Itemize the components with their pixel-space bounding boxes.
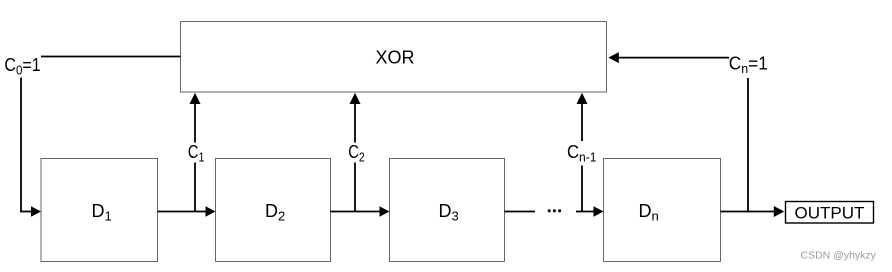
ellipsis dots xyxy=(548,209,561,212)
wire C0 vertical down xyxy=(20,78,22,212)
arrowhead Cn-1 into XOR bottom xyxy=(577,93,588,104)
svg-text:C1: C1 xyxy=(188,142,205,165)
wire C0 feedback horizontal into XOR left xyxy=(41,56,181,58)
flip-flop D1 xyxy=(41,159,158,262)
flip-flop Dn xyxy=(604,159,721,262)
wire D1 to D2 xyxy=(158,211,208,213)
xor gate box U1 xyxy=(181,22,607,93)
svg-text:Cn=1: Cn=1 xyxy=(729,54,768,77)
wire tap node to C1 (lower segment) xyxy=(194,163,196,212)
svg-text:XOR: XOR xyxy=(375,48,414,68)
arrowhead C1 into XOR bottom xyxy=(190,93,201,104)
wire C1 to XOR (upper segment) xyxy=(194,103,196,143)
wire tap node to C2 (lower segment) xyxy=(354,163,356,212)
wire C2 to XOR (upper segment) xyxy=(354,103,356,143)
wire D2 to D3 xyxy=(331,211,382,213)
wire ellipsis to Dn xyxy=(576,211,595,213)
wire Cn vertical down to output net xyxy=(747,78,749,212)
wire Cn horizontal toward XOR right xyxy=(618,57,729,59)
arrowhead Cn into XOR right xyxy=(608,52,619,63)
svg-text:C2: C2 xyxy=(348,142,365,165)
wire tap node to Cn-1 (lower segment) xyxy=(581,166,583,212)
arrowhead into D1 xyxy=(31,206,41,216)
svg-text:C0=1: C0=1 xyxy=(4,55,40,78)
arrowhead into D2 xyxy=(206,206,216,216)
arrowhead into Dn xyxy=(594,206,604,216)
arrowhead into OUTPUT xyxy=(774,206,784,217)
wire Dn to OUTPUT xyxy=(721,211,776,213)
flip-flop D2 xyxy=(216,159,331,262)
OUTPUT box xyxy=(786,202,874,224)
svg-text:Cn-1: Cn-1 xyxy=(567,142,597,165)
svg-text:CSDN @yhykzy: CSDN @yhykzy xyxy=(801,250,877,262)
arrowhead C2 into XOR bottom xyxy=(350,93,361,104)
svg-text:OUTPUT: OUTPUT xyxy=(795,204,865,223)
arrowhead into D3 xyxy=(380,206,390,216)
flip-flop D3 xyxy=(390,159,505,262)
wire C0 horizontal into D1 xyxy=(20,211,33,213)
wire D3 toward ellipsis xyxy=(505,211,536,213)
wire Cn-1 to XOR (upper segment) xyxy=(581,103,583,141)
